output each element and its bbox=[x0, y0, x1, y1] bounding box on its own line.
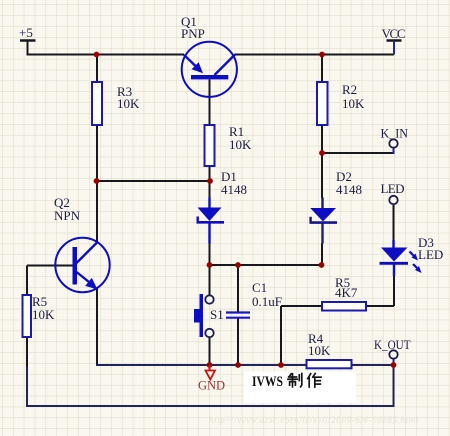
svg-text:R2: R2 bbox=[342, 82, 357, 97]
svg-text:NPN: NPN bbox=[54, 208, 81, 223]
svg-text:4148: 4148 bbox=[336, 182, 362, 197]
svg-text:C1: C1 bbox=[252, 280, 267, 295]
svg-text:GND: GND bbox=[198, 379, 225, 393]
svg-text:K_OUT: K_OUT bbox=[374, 337, 411, 352]
svg-text:10K: 10K bbox=[117, 96, 140, 111]
svg-text:PNP: PNP bbox=[181, 26, 205, 41]
svg-text:VCC: VCC bbox=[382, 26, 406, 41]
svg-text:LED: LED bbox=[381, 181, 405, 196]
svg-text:10K: 10K bbox=[342, 96, 365, 111]
svg-text:K_IN: K_IN bbox=[381, 126, 409, 141]
svg-text:S1: S1 bbox=[210, 307, 224, 322]
svg-text:10K: 10K bbox=[308, 343, 331, 358]
svg-text:IVWS: IVWS bbox=[252, 374, 283, 390]
svg-text:http~//vvvw.dzsc.corn/ic/sell/: http~//vvvw.dzsc.corn/ic/sell/2009-6/6-0… bbox=[209, 415, 419, 425]
svg-text:+5: +5 bbox=[19, 25, 33, 40]
svg-text:4K7: 4K7 bbox=[335, 285, 358, 300]
svg-text:10K: 10K bbox=[229, 137, 252, 152]
svg-text:4148: 4148 bbox=[221, 182, 247, 197]
svg-text:LED: LED bbox=[418, 247, 443, 262]
svg-text:10K: 10K bbox=[32, 307, 55, 322]
svg-text:0.1uF: 0.1uF bbox=[252, 294, 282, 309]
